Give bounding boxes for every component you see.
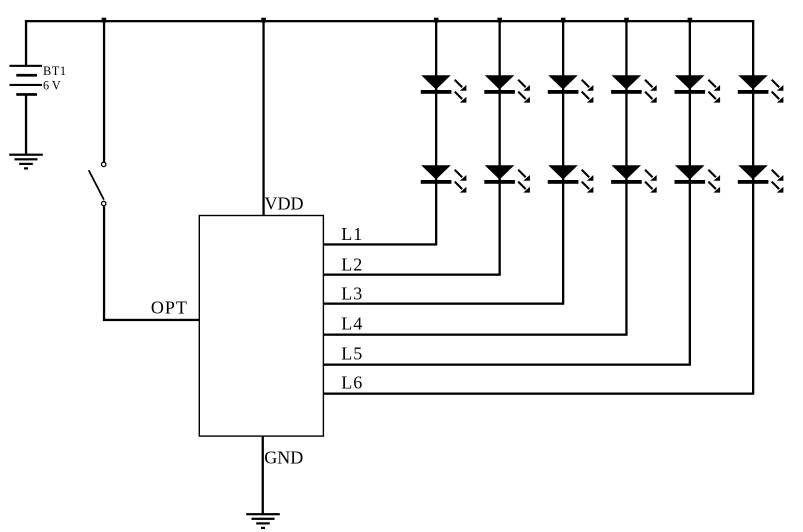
svg-text:OPT: OPT xyxy=(151,298,188,318)
svg-text:6 V: 6 V xyxy=(43,79,61,93)
svg-text:L1: L1 xyxy=(341,224,363,244)
svg-text:L6: L6 xyxy=(341,372,363,392)
svg-text:L3: L3 xyxy=(341,283,363,303)
svg-text:L2: L2 xyxy=(341,254,363,274)
svg-text:L5: L5 xyxy=(341,343,363,363)
svg-text:VDD: VDD xyxy=(265,193,304,213)
svg-text:L4: L4 xyxy=(341,313,363,333)
svg-text:BT1: BT1 xyxy=(43,64,67,78)
svg-text:GND: GND xyxy=(264,448,303,468)
